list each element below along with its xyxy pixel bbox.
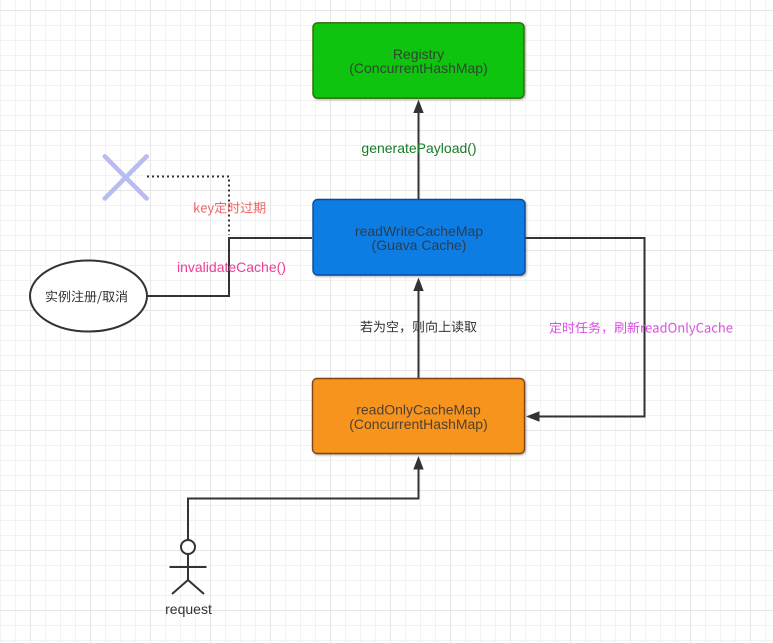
svg-text:(ConcurrentHashMap): (ConcurrentHashMap) xyxy=(349,416,488,432)
wire: generatePayload arrow from readWriteCacheMap up to Registry xyxy=(413,100,423,199)
box: readOnlyCacheMap (orange) xyxy=(313,379,525,454)
box: Registry (green) xyxy=(313,23,524,98)
box: readWriteCacheMap (blue) xyxy=(313,200,525,276)
label: key定时过期 xyxy=(194,202,265,216)
label: generatePayload() xyxy=(361,140,476,156)
label: invalidateCache() xyxy=(177,259,286,275)
stick figure: request actor xyxy=(170,540,207,594)
X mark (expired key) xyxy=(105,156,147,198)
svg-text:generatePayload(): generatePayload() xyxy=(361,140,476,156)
label: 定时任务，刷新readOnlyCache xyxy=(550,322,733,336)
wire: request path from stick figure up to readOnlyCacheMap bottom xyxy=(188,456,424,540)
label: request xyxy=(165,601,212,617)
svg-text:(ConcurrentHashMap): (ConcurrentHashMap) xyxy=(349,60,488,76)
wire: dotted key-expiry path from X mark to invalidateCache corner xyxy=(147,177,229,236)
svg-text:invalidateCache(): invalidateCache() xyxy=(177,259,286,275)
ellipse: 实例注册/取消 actor xyxy=(30,261,147,332)
svg-text:request: request xyxy=(165,601,212,617)
label: 若为空，则向上读取 xyxy=(360,321,476,333)
wire: invalidateCache path from ellipse to readWriteCacheMap xyxy=(147,238,312,296)
wire: refresh path from readWriteCacheMap right side down to readOnlyCacheMap xyxy=(525,238,645,422)
wire: read-upward arrow from readOnlyCacheMap up to readWriteCacheMap xyxy=(413,278,423,379)
svg-text:(Guava Cache): (Guava Cache) xyxy=(372,237,467,253)
